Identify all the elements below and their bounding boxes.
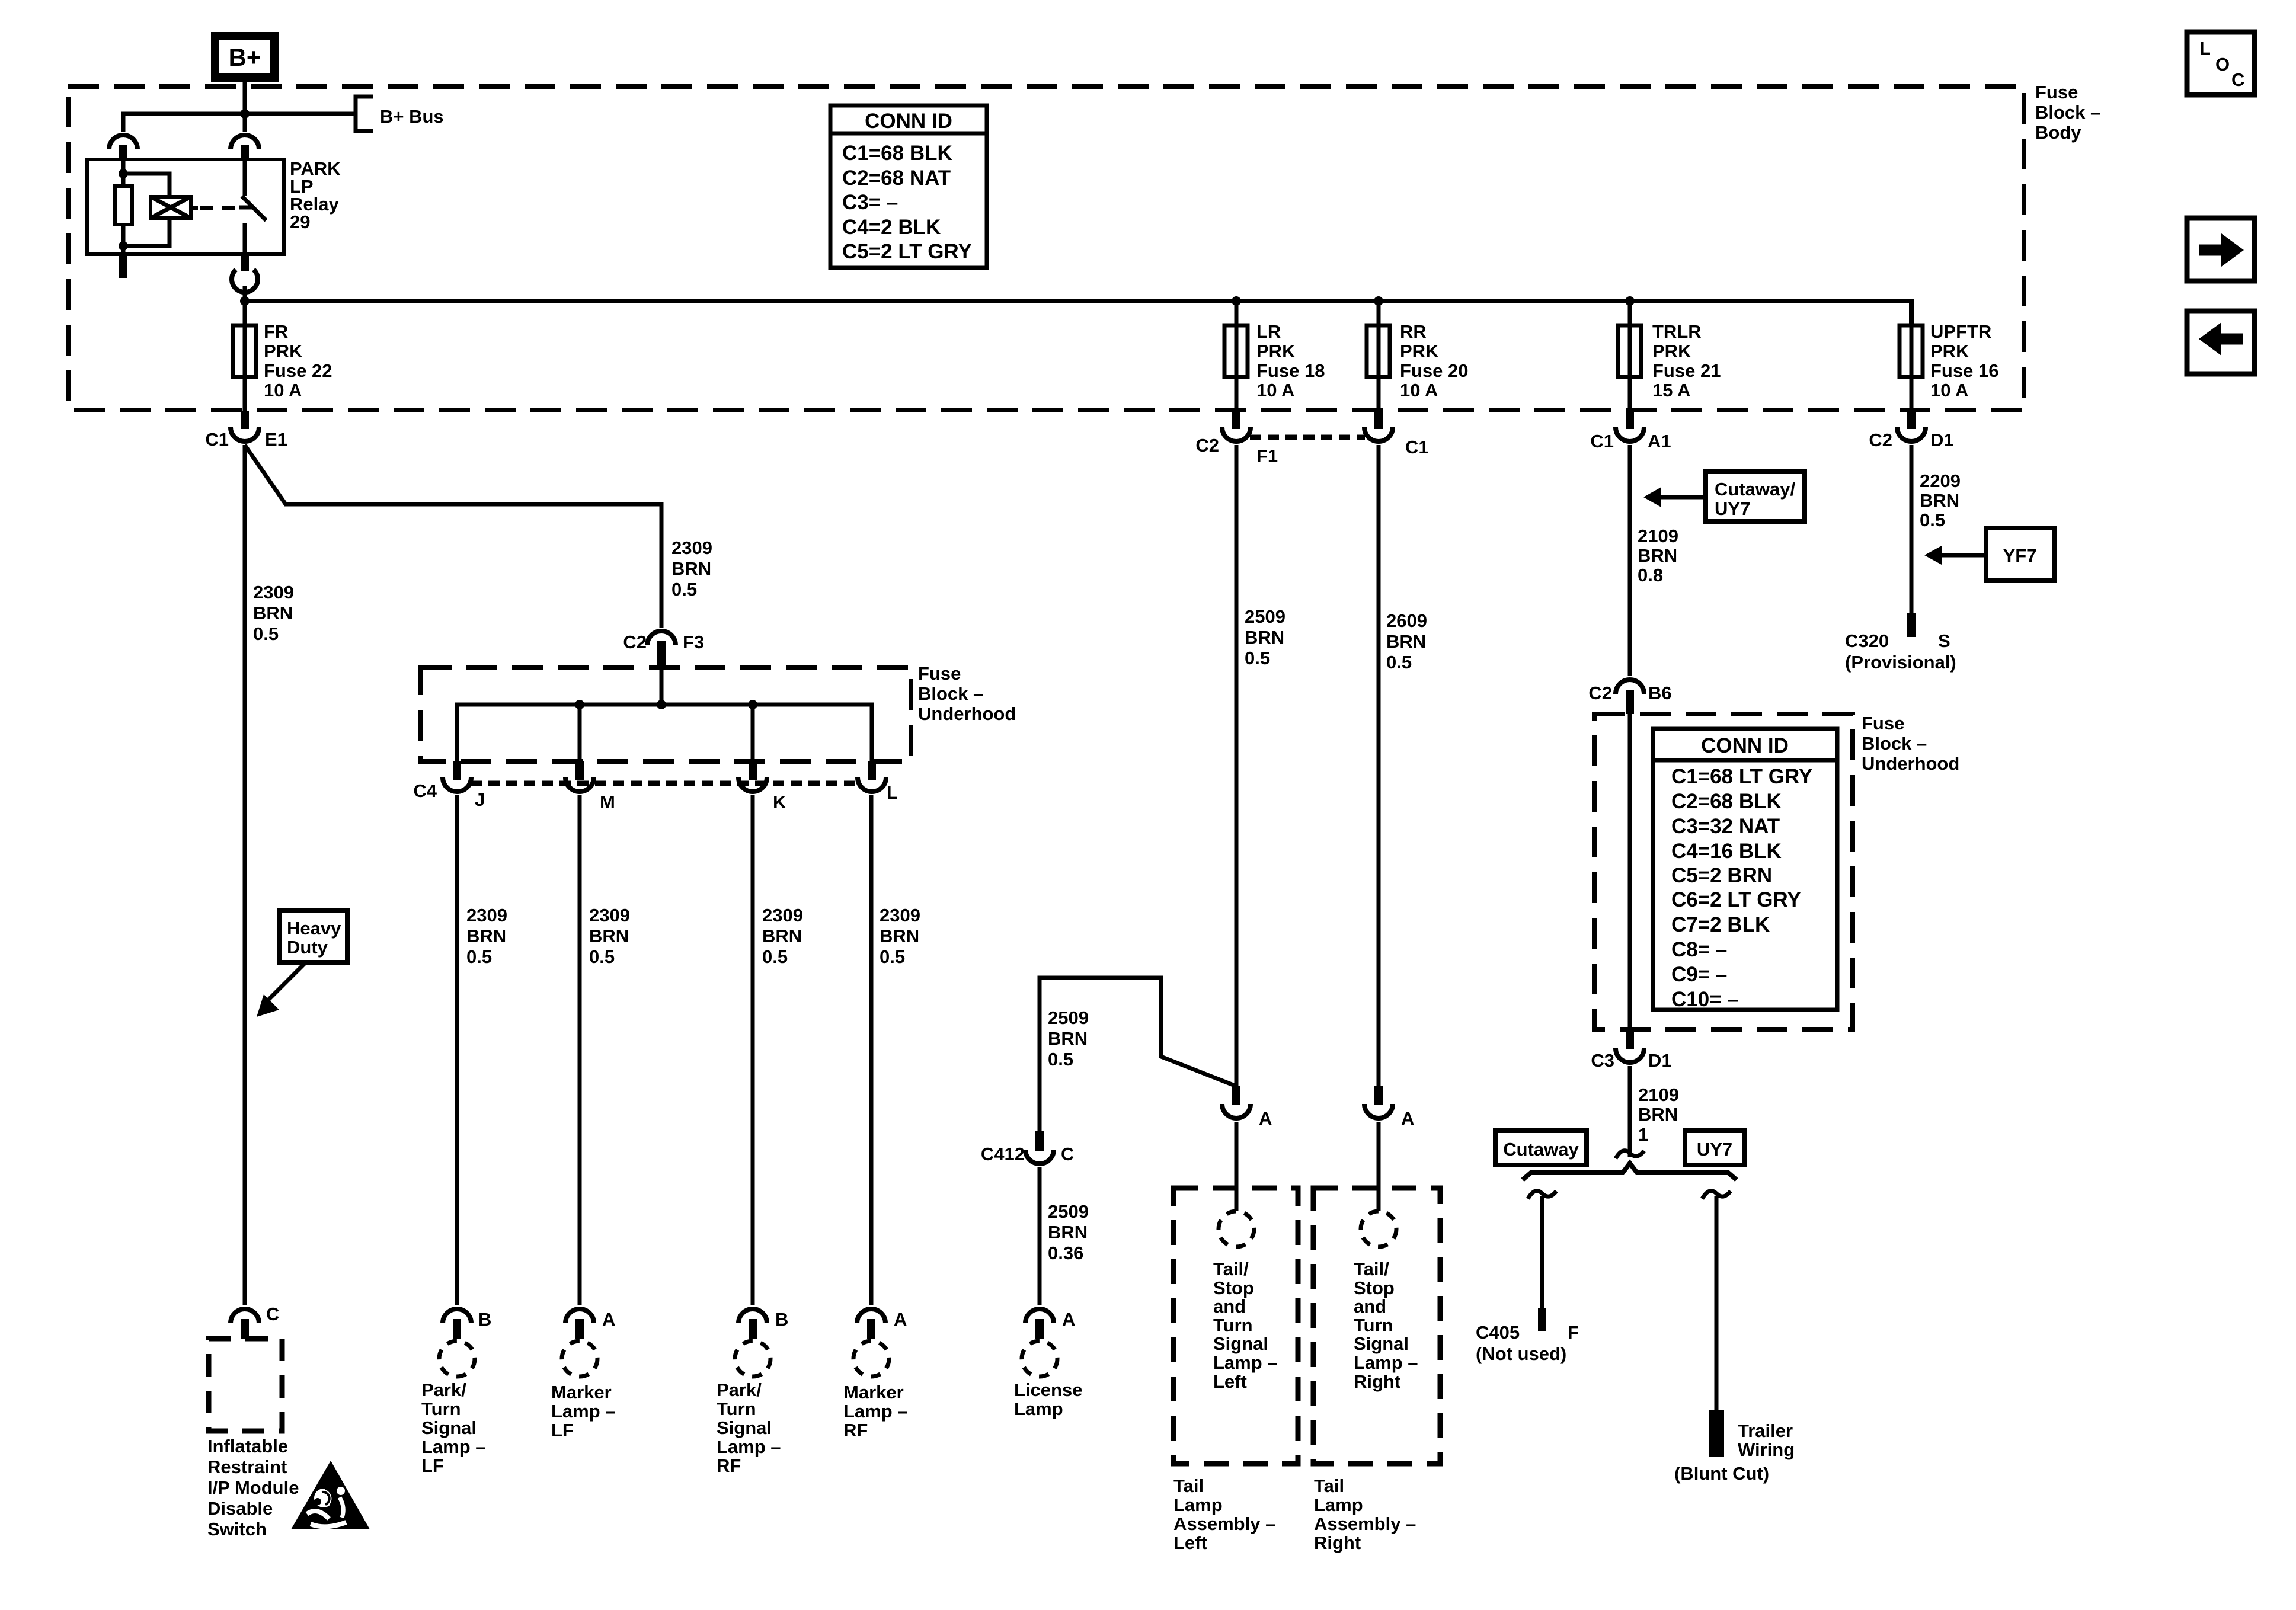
svg-text:Fuse 18: Fuse 18 [1256, 360, 1325, 381]
svg-text:C2=68 BLK: C2=68 BLK [1671, 790, 1782, 813]
svg-text:C4: C4 [413, 780, 437, 801]
svg-text:Body: Body [2035, 122, 2081, 143]
wire underhood internal bus [457, 705, 872, 761]
svg-text:29: 29 [290, 212, 310, 232]
svg-text:Right: Right [1354, 1371, 1400, 1392]
svg-text:D1: D1 [1930, 430, 1954, 450]
svg-text:A: A [1062, 1309, 1075, 1330]
svg-text:Stop: Stop [1354, 1278, 1395, 1298]
connector C2 F1 under LR fuse [1195, 411, 1278, 466]
svg-text:Signal: Signal [1354, 1333, 1409, 1354]
svg-text:Tail: Tail [1314, 1475, 1344, 1496]
svg-text:C4=16 BLK: C4=16 BLK [1671, 840, 1782, 863]
svg-text:and: and [1213, 1296, 1246, 1317]
svg-text:0.5: 0.5 [1048, 1049, 1073, 1070]
svg-text:2109: 2109 [1638, 1084, 1679, 1105]
svg-text:Right: Right [1314, 1532, 1361, 1553]
wire B+ junction down to relay switch pin [243, 114, 247, 132]
wire TRLR down to B6 [1628, 445, 1632, 676]
connector A marker RF [857, 1309, 907, 1339]
svg-text:BRN: BRN [1245, 627, 1284, 648]
svg-text:License: License [1014, 1379, 1082, 1400]
svg-text:Fuse 21: Fuse 21 [1652, 360, 1721, 381]
fuse F21 TRLR PRK [1618, 325, 1641, 377]
relay switch output pin stub [241, 254, 249, 271]
svg-text:Block –: Block – [1862, 733, 1927, 754]
connector A tail lamp left [1222, 1086, 1272, 1129]
svg-text:BRN: BRN [762, 926, 802, 946]
B+ Bus bracket [356, 97, 373, 131]
LOC box [2187, 32, 2255, 95]
node bus at FR fuse [240, 296, 250, 306]
wire LR tail feed down [1235, 445, 1239, 1086]
svg-text:Lamp –: Lamp – [1213, 1352, 1278, 1373]
connector C405 F blunt end [1538, 1308, 1546, 1331]
svg-text:0.5: 0.5 [880, 946, 905, 967]
svg-text:2309: 2309 [762, 905, 803, 926]
svg-text:C: C [266, 1304, 279, 1324]
svg-text:RR: RR [1400, 321, 1427, 342]
svg-text:C3= –: C3= – [842, 191, 898, 214]
wire license lamp branch [1040, 978, 1236, 1138]
svg-text:C7=2 BLK: C7=2 BLK [1671, 913, 1770, 936]
lamp marker RF [853, 1341, 889, 1377]
CONN ID table fuse block underhood [1653, 729, 1837, 1011]
svg-text:B: B [478, 1309, 491, 1330]
svg-text:B: B [775, 1309, 788, 1330]
svg-text:BRN: BRN [671, 558, 711, 579]
svg-text:Left: Left [1173, 1532, 1207, 1553]
wire label 2609 BRN 0.5 RR [1386, 610, 1427, 673]
relay U29 PARK LP Relay box [87, 159, 284, 254]
Cutaway option box [1495, 1131, 1587, 1165]
svg-text:A1: A1 [1648, 431, 1671, 452]
UY7 option box [1685, 1131, 1744, 1165]
svg-text:10 A: 10 A [1256, 380, 1294, 401]
svg-text:Trailer: Trailer [1738, 1420, 1793, 1441]
svg-text:UY7: UY7 [1697, 1139, 1732, 1160]
wire LR fuse branch [1235, 301, 1239, 411]
connector C4 J [413, 761, 485, 810]
connector C3 D1 [1591, 1029, 1671, 1071]
svg-text:PRK: PRK [1930, 341, 1969, 361]
svg-text:BRN: BRN [1048, 1028, 1088, 1049]
wire bus stub K [751, 705, 755, 761]
node bus at K [748, 700, 757, 709]
svg-text:D1: D1 [1648, 1050, 1672, 1071]
fuse block body label [2035, 82, 2100, 143]
svg-text:Tail/: Tail/ [1213, 1259, 1249, 1279]
svg-text:C320: C320 [1845, 630, 1889, 651]
svg-text:and: and [1354, 1296, 1386, 1317]
connector under relay [232, 270, 258, 292]
svg-text:A: A [1401, 1108, 1414, 1129]
svg-text:Fuse: Fuse [1862, 713, 1904, 734]
svg-text:C2: C2 [623, 632, 647, 652]
svg-text:LF: LF [421, 1455, 444, 1476]
svg-text:Lamp: Lamp [1014, 1398, 1063, 1419]
fuse block underhood dashed box right [1594, 714, 1853, 1029]
svg-text:LR: LR [1256, 321, 1281, 342]
svg-text:C412: C412 [981, 1144, 1025, 1164]
svg-text:Marker: Marker [843, 1382, 904, 1403]
fuse block underhood label right [1862, 713, 1959, 774]
node bus at TRLR fuse [1625, 296, 1635, 306]
svg-text:1: 1 [1638, 1124, 1648, 1145]
connector C2 F3 [623, 631, 704, 667]
lamp tail stop turn left [1219, 1211, 1254, 1247]
wire UPFTR fuse branch [1910, 301, 1914, 411]
svg-text:UY7: UY7 [1715, 498, 1750, 519]
arrow Heavy Duty to wire [257, 962, 306, 1017]
svg-text:BRN: BRN [1386, 631, 1426, 652]
wire label 2109 BRN 0.8 TRLR [1638, 526, 1678, 585]
svg-text:10 A: 10 A [1930, 380, 1968, 401]
svg-text:FR: FR [264, 321, 288, 342]
svg-text:UPFTR: UPFTR [1930, 321, 1991, 342]
svg-text:B+: B+ [229, 43, 261, 71]
wire label 2109 BRN 1 [1638, 1084, 1679, 1145]
connector C1 A1 under TRLR fuse [1590, 411, 1671, 452]
svg-text:BRN: BRN [253, 603, 293, 623]
wire cutaway branch [1528, 1191, 1556, 1308]
svg-text:Lamp –: Lamp – [1354, 1352, 1418, 1373]
svg-text:2309: 2309 [466, 905, 507, 926]
svg-text:Tail: Tail [1173, 1475, 1204, 1496]
svg-text:C2: C2 [1195, 435, 1219, 456]
wire bus stub M [578, 705, 582, 761]
svg-text:B6: B6 [1648, 683, 1672, 703]
connector B park turn LF [443, 1309, 491, 1339]
svg-text:A: A [1259, 1108, 1272, 1129]
wire label 2309 BRN 0.5 L [880, 905, 920, 967]
wire label 2309 BRN 0.5 J [466, 905, 507, 967]
svg-text:2509: 2509 [1048, 1007, 1089, 1028]
svg-text:C1: C1 [1405, 437, 1429, 457]
wire C3D1 to option split [1628, 1066, 1632, 1157]
svg-text:C2: C2 [1588, 683, 1612, 703]
svg-text:Switch: Switch [207, 1519, 267, 1539]
wire main feed bus [245, 301, 1911, 324]
wire label 2309 BRN 0.5 K [762, 905, 803, 967]
svg-text:0.5: 0.5 [762, 946, 788, 967]
wire M to marker LF lamp [578, 795, 582, 1305]
svg-text:Cutaway: Cutaway [1503, 1139, 1579, 1160]
wire relay to bus [243, 286, 247, 301]
svg-text:BRN: BRN [589, 926, 629, 946]
svg-text:BRN: BRN [880, 926, 919, 946]
svg-text:L: L [2199, 38, 2211, 59]
svg-text:PRK: PRK [1652, 341, 1691, 361]
node B+ junction [240, 109, 250, 119]
svg-text:RF: RF [717, 1455, 741, 1476]
connector relay pin coil [109, 135, 137, 159]
left arrow nav box [2187, 311, 2255, 374]
connector relay pin switch [231, 135, 259, 159]
svg-text:Fuse 22: Fuse 22 [264, 360, 332, 381]
svg-text:C1=68 LT GRY: C1=68 LT GRY [1671, 765, 1812, 788]
wire junction to relay coil pin [123, 114, 245, 132]
relay switch contact [239, 159, 266, 254]
svg-text:LF: LF [551, 1420, 574, 1441]
connector A marker LF [565, 1309, 615, 1339]
connector A tail lamp right [1364, 1086, 1414, 1129]
inflatable restraint switch label [207, 1436, 299, 1539]
svg-text:C5=2 LT GRY: C5=2 LT GRY [842, 240, 972, 263]
svg-text:Lamp: Lamp [1314, 1494, 1363, 1515]
connector C at IP switch [231, 1304, 279, 1339]
airbag warning triangle [291, 1461, 370, 1529]
wire B6 through underhood block [1628, 714, 1632, 1029]
svg-text:Tail/: Tail/ [1354, 1259, 1389, 1279]
right arrow nav box [2187, 218, 2255, 281]
svg-text:C2=68 NAT: C2=68 NAT [842, 167, 951, 190]
svg-text:2509: 2509 [1048, 1201, 1089, 1222]
wire label 2309 BRN 0.5 at F3 [671, 537, 712, 600]
svg-text:0.5: 0.5 [1920, 510, 1945, 530]
svg-text:Turn: Turn [1354, 1315, 1393, 1336]
fuse F22 FR PRK [233, 325, 256, 377]
Cutaway UY7 callout box [1706, 472, 1805, 521]
svg-text:2509: 2509 [1245, 606, 1285, 627]
wire C412 to license lamp [1038, 1167, 1042, 1305]
svg-text:Duty: Duty [287, 937, 328, 958]
options split brace [1523, 1163, 1737, 1180]
svg-text:Block –: Block – [2035, 102, 2100, 123]
svg-text:C: C [1061, 1144, 1074, 1164]
wire into tail lamp right [1377, 1122, 1381, 1211]
svg-text:2609: 2609 [1386, 610, 1427, 631]
svg-text:Signal: Signal [1213, 1333, 1268, 1354]
svg-text:Underhood: Underhood [918, 703, 1016, 724]
svg-text:B+ Bus: B+ Bus [380, 106, 444, 127]
wire label 2209 BRN 0.5 UPFTR [1920, 470, 1961, 530]
wire into tail lamp left [1235, 1122, 1239, 1211]
lamp park turn signal LF [439, 1341, 475, 1377]
B+ power symbol [215, 36, 274, 78]
connector A license lamp [1025, 1309, 1075, 1339]
connector C320 S provisional blunt end [1907, 613, 1916, 637]
svg-text:Stop: Stop [1213, 1278, 1254, 1298]
svg-text:10 A: 10 A [264, 380, 302, 401]
svg-text:0.8: 0.8 [1638, 565, 1663, 585]
wire coil pin inside relay [121, 159, 126, 186]
arrow Cutaway UY7 to wire [1643, 487, 1706, 507]
svg-text:C: C [2231, 69, 2244, 90]
svg-text:BRN: BRN [466, 926, 506, 946]
fuse F20 RR PRK [1367, 325, 1390, 377]
node bus at LR fuse [1232, 296, 1241, 306]
lamp tail stop turn right [1361, 1211, 1396, 1247]
svg-text:2309: 2309 [671, 537, 712, 558]
svg-text:Underhood: Underhood [1862, 753, 1959, 774]
svg-text:Lamp –: Lamp – [551, 1401, 616, 1422]
svg-text:Block –: Block – [918, 683, 983, 704]
wire K to park turn RF lamp [751, 795, 755, 1305]
wire label 2509 BRN 0.5 LR [1245, 606, 1285, 668]
svg-text:M: M [600, 792, 615, 812]
wire dotted link C2F1 to C1RR [1250, 435, 1365, 440]
relay coil ground pin stub [119, 254, 127, 278]
wire label 2509 BRN 0.36 [1048, 1201, 1089, 1263]
svg-text:(Provisional): (Provisional) [1845, 652, 1956, 673]
svg-text:2309: 2309 [880, 905, 920, 926]
node bus at M [575, 700, 584, 709]
svg-text:Fuse: Fuse [2035, 82, 2078, 103]
svg-text:Park/: Park/ [421, 1379, 466, 1400]
svg-text:Assembly –: Assembly – [1173, 1513, 1275, 1534]
svg-text:RF: RF [843, 1420, 868, 1441]
wire RR fuse branch [1377, 301, 1381, 411]
svg-text:Signal: Signal [717, 1417, 772, 1438]
inflatable restraint switch dashed box [209, 1339, 282, 1431]
svg-text:Lamp –: Lamp – [421, 1436, 486, 1457]
svg-text:C1: C1 [205, 429, 229, 450]
connector C2 B6 [1588, 680, 1671, 714]
tail lamp assembly right dashed box [1313, 1188, 1440, 1464]
wire UPFTR to C320 [1910, 445, 1914, 613]
svg-text:0.5: 0.5 [671, 579, 697, 600]
svg-text:C1=68 BLK: C1=68 BLK [842, 142, 952, 165]
svg-text:Fuse: Fuse [918, 663, 961, 684]
svg-text:15 A: 15 A [1652, 380, 1690, 401]
fuse F16 UPFTR PRK [1900, 325, 1923, 377]
svg-text:K: K [773, 792, 786, 812]
connector C1 under RR fuse [1364, 411, 1429, 457]
wire RR tail feed down [1377, 445, 1381, 1086]
svg-text:F3: F3 [683, 632, 704, 652]
wire top node to coil [123, 174, 170, 197]
svg-text:BRN: BRN [1638, 545, 1677, 566]
svg-text:Left: Left [1213, 1371, 1247, 1392]
svg-text:Assembly –: Assembly – [1314, 1513, 1416, 1534]
svg-text:0.5: 0.5 [589, 946, 615, 967]
svg-text:C1: C1 [1590, 431, 1614, 452]
svg-text:TRLR: TRLR [1652, 321, 1702, 342]
node bus at RR fuse [1374, 296, 1383, 306]
lamp marker LF [562, 1341, 597, 1377]
wire label 2509 BRN 0.5 license [1048, 1007, 1089, 1070]
svg-text:Lamp: Lamp [1173, 1494, 1223, 1515]
svg-text:C4=2 BLK: C4=2 BLK [842, 216, 941, 239]
svg-text:F: F [1568, 1322, 1579, 1343]
svg-text:O: O [2215, 54, 2230, 75]
svg-text:Restraint: Restraint [207, 1457, 287, 1477]
wire TRLR fuse branch [1628, 301, 1632, 411]
svg-text:L: L [887, 782, 898, 803]
svg-text:C8= –: C8= – [1671, 938, 1727, 961]
wire label 2309 BRN 0.5 left [253, 582, 294, 644]
fuse block underhood label left [918, 663, 1016, 724]
trailer wiring blunt cut end [1709, 1410, 1724, 1457]
svg-text:C3=32 NAT: C3=32 NAT [1671, 815, 1780, 838]
wire E1 down to IP switch [243, 445, 247, 1305]
svg-text:BRN: BRN [1920, 490, 1959, 511]
svg-text:2209: 2209 [1920, 470, 1961, 491]
svg-text:PRK: PRK [1256, 341, 1296, 361]
svg-text:Lamp –: Lamp – [843, 1401, 908, 1422]
svg-text:BRN: BRN [1638, 1104, 1678, 1125]
CONN ID table fuse block body [830, 105, 987, 268]
node F3 on internal bus [657, 700, 666, 709]
svg-text:2109: 2109 [1638, 526, 1678, 546]
wire break mark at split [1616, 1151, 1644, 1158]
wire E1 diagonal branch to F3 [245, 445, 661, 628]
lamp park turn signal RF [735, 1341, 770, 1377]
wire resistor to bottom node [121, 225, 126, 254]
svg-text:Heavy: Heavy [287, 918, 341, 939]
svg-text:C9= –: C9= – [1671, 963, 1727, 986]
svg-text:PRK: PRK [1400, 341, 1439, 361]
node relay coil top [119, 169, 128, 178]
svg-text:Disable: Disable [207, 1498, 273, 1519]
wire label 2309 BRN 0.5 M [589, 905, 630, 967]
wire FR fuse branch [243, 301, 247, 411]
connector K [738, 761, 786, 812]
wire J to park turn LF lamp [455, 795, 459, 1305]
svg-text:PRK: PRK [264, 341, 303, 361]
svg-text:J: J [475, 789, 485, 810]
svg-text:Cutaway/: Cutaway/ [1715, 479, 1795, 500]
fuse block body dashed box [68, 87, 2024, 410]
svg-text:C5=2 BRN: C5=2 BRN [1671, 864, 1772, 887]
svg-text:YF7: YF7 [2003, 545, 2037, 566]
tail lamp assembly left dashed box [1173, 1188, 1298, 1464]
svg-text:Inflatable: Inflatable [207, 1436, 288, 1457]
svg-text:A: A [602, 1309, 615, 1330]
svg-text:F1: F1 [1256, 446, 1278, 466]
svg-text:2309: 2309 [253, 582, 294, 603]
svg-text:C405: C405 [1476, 1322, 1520, 1343]
resistor relay internal [115, 186, 132, 225]
arrow YF7 to wire [1924, 546, 1985, 565]
svg-text:I/P Module: I/P Module [207, 1477, 299, 1498]
svg-text:0.5: 0.5 [253, 623, 279, 644]
wire junction to B+ Bus bracket [245, 112, 354, 116]
svg-text:0.5: 0.5 [1386, 652, 1412, 673]
svg-text:CONN ID: CONN ID [865, 110, 952, 133]
svg-text:(Blunt Cut): (Blunt Cut) [1674, 1463, 1769, 1484]
svg-text:C3: C3 [1591, 1050, 1614, 1071]
svg-text:0.36: 0.36 [1048, 1243, 1083, 1263]
connector C1 E1 under FR fuse [205, 411, 287, 450]
wire F3 pin to internal bus [660, 667, 664, 705]
lamp license [1022, 1341, 1057, 1377]
fuse F18 LR PRK [1224, 325, 1248, 377]
YF7 callout box [1986, 528, 2054, 581]
svg-text:C6=2 LT GRY: C6=2 LT GRY [1671, 888, 1801, 911]
svg-text:Turn: Turn [421, 1398, 461, 1419]
svg-text:0.5: 0.5 [1245, 648, 1270, 668]
relay coil winding symbol [151, 197, 191, 218]
wire UY7 trailer branch [1702, 1191, 1731, 1410]
wire coil actuation link solid stub [191, 206, 198, 210]
connector B park turn RF [738, 1309, 788, 1339]
svg-text:Turn: Turn [1213, 1315, 1253, 1336]
svg-text:(Not used): (Not used) [1476, 1343, 1566, 1364]
wire L to marker RF lamp [869, 795, 874, 1305]
connector C412 C [981, 1131, 1075, 1164]
svg-text:Turn: Turn [717, 1398, 756, 1419]
svg-text:C10= –: C10= – [1671, 988, 1739, 1011]
fuse block underhood dashed box left [421, 667, 911, 761]
connector C2 D1 under UPFTR fuse [1869, 411, 1953, 450]
Heavy Duty callout box [279, 910, 347, 962]
svg-text:BRN: BRN [1048, 1222, 1088, 1243]
wire B+ to junction [243, 82, 247, 114]
connector L [858, 761, 898, 803]
wire dotted connector row C4 [471, 781, 858, 786]
